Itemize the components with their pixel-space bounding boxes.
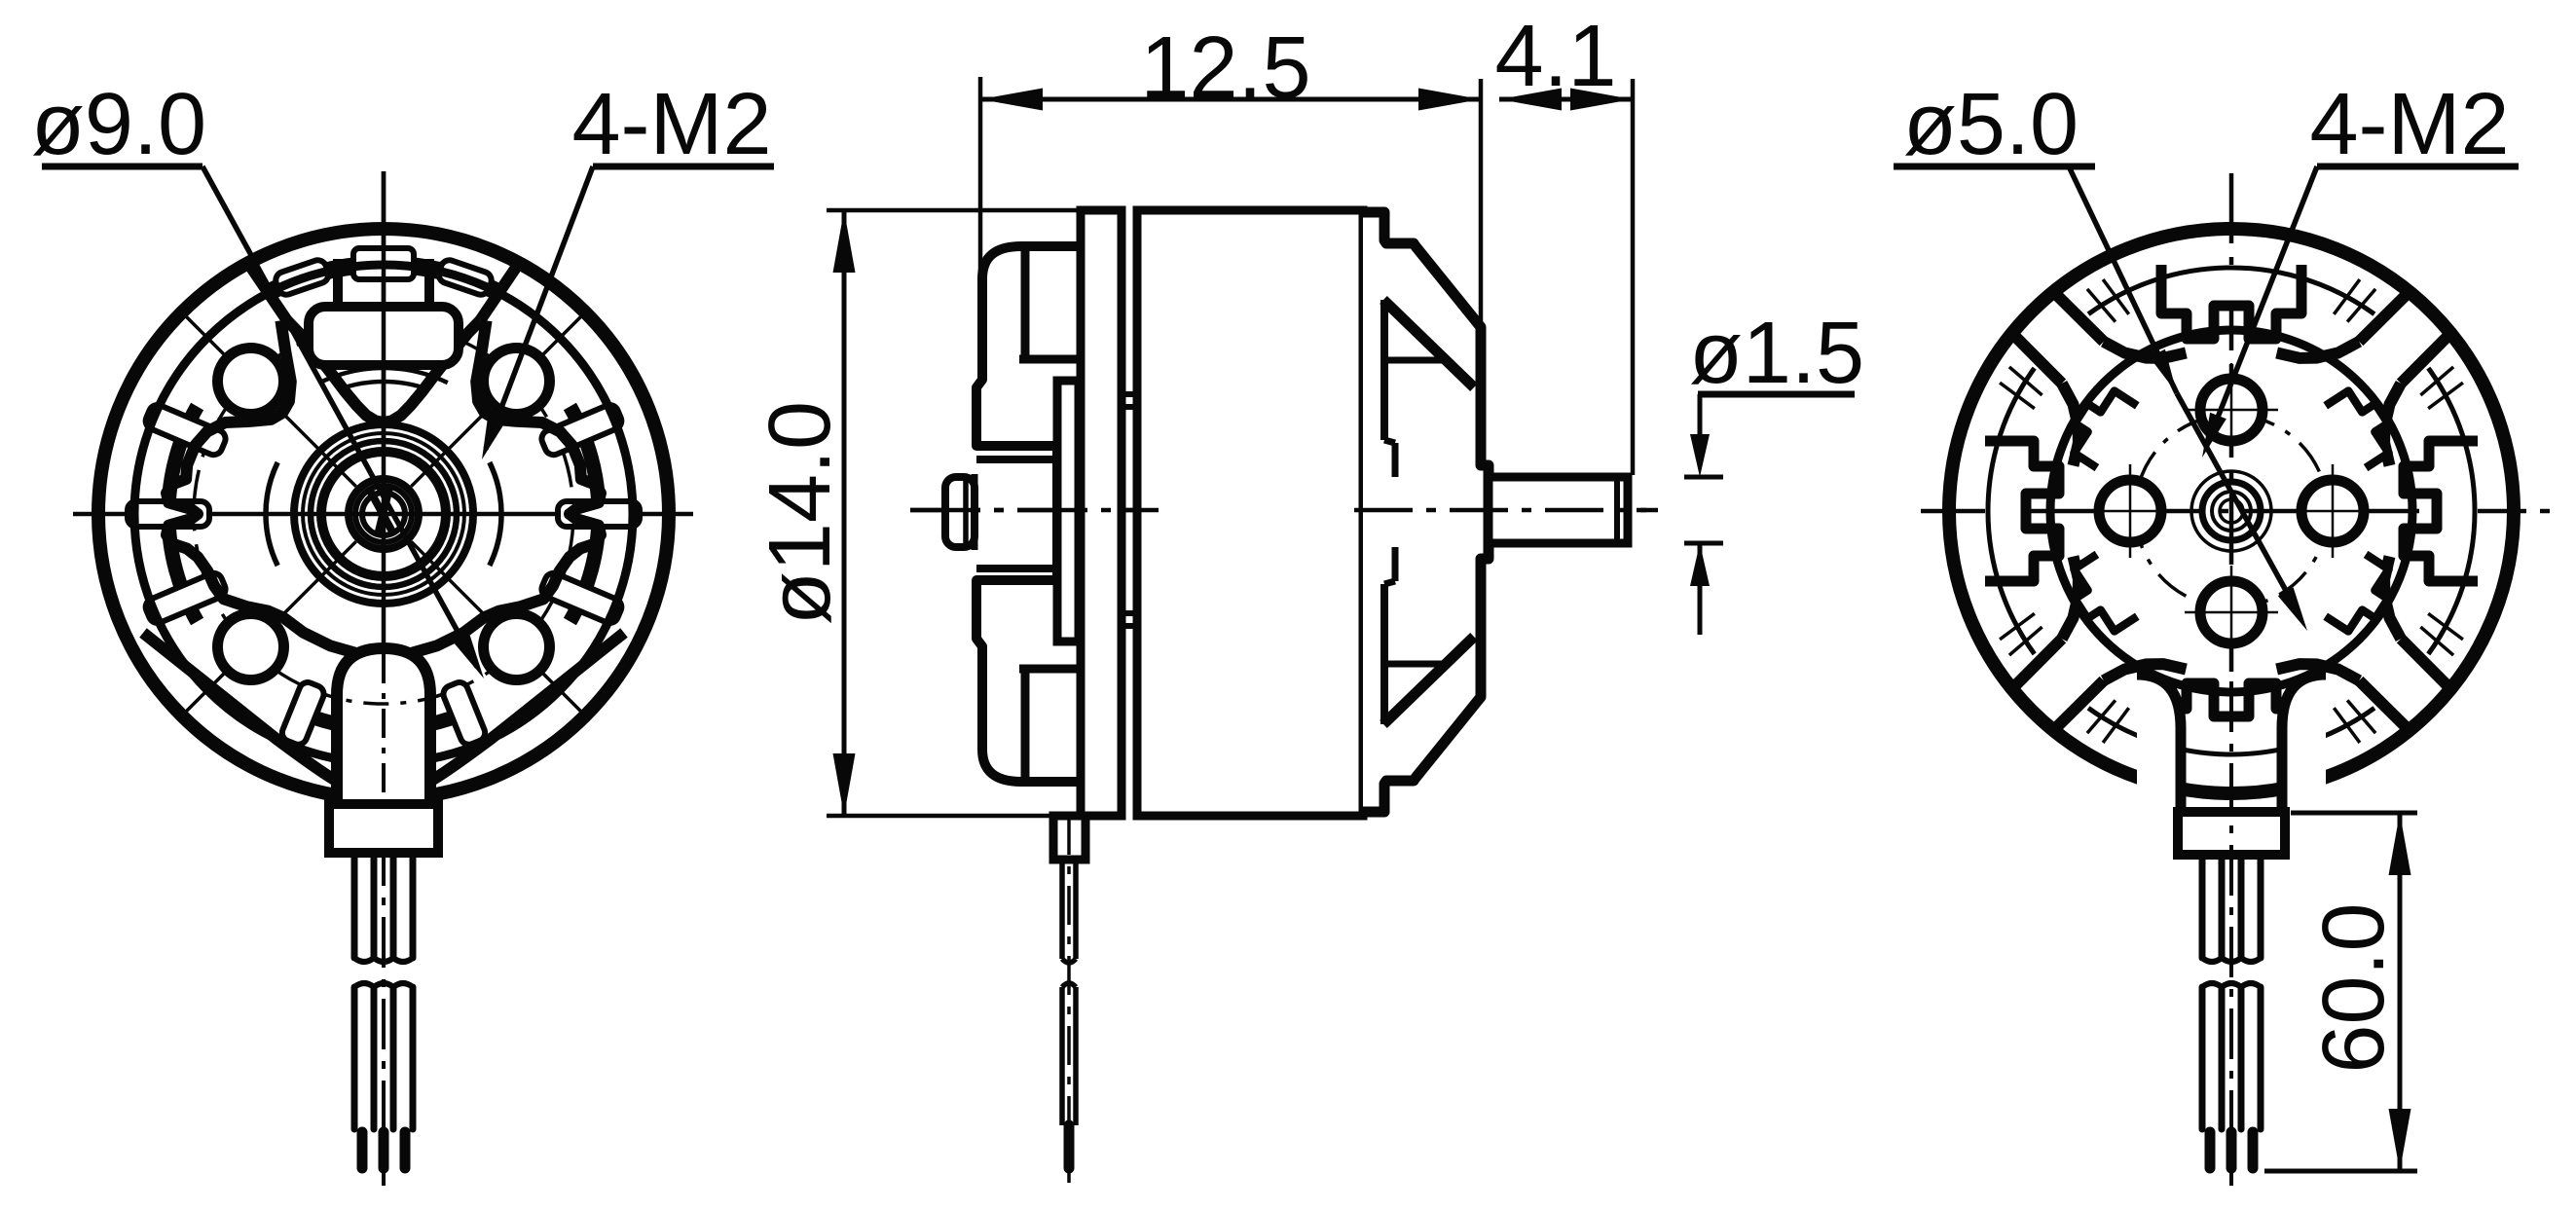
leg outline lower-left <box>143 633 338 782</box>
stator stack rect <box>1057 381 1079 642</box>
inner rim circle <box>134 265 633 763</box>
outer circle <box>98 229 669 799</box>
end cap inner diagonal bottom <box>1383 637 1474 724</box>
crosshair dash-dot <box>1921 509 2555 514</box>
right view vertical dashdot through boot <box>2229 681 2233 1186</box>
mount flange silhouette <box>976 246 1083 782</box>
middle view wire <box>1053 816 1086 860</box>
right arm step tabs <box>2326 383 2402 468</box>
center boss rings <box>2191 471 2271 551</box>
diagonal hole centerlines <box>411 314 583 487</box>
right pocket south <box>2277 664 2360 680</box>
vertical centerline over top pocket <box>382 171 386 448</box>
svg-text:ø9.0: ø9.0 <box>31 76 206 173</box>
svg-text:4-M2: 4-M2 <box>2309 76 2509 173</box>
inner boundary left half with 9oclock prongs <box>166 320 384 656</box>
svg-text:ø1.5: ø1.5 <box>1689 305 1864 402</box>
right pocket west <box>2062 557 2079 640</box>
leg outline lower-right <box>429 633 624 782</box>
rear holes 4x <box>2200 379 2263 441</box>
centerline through boot <box>382 654 386 804</box>
bottom arc band near boot <box>296 711 471 729</box>
bolt circle dashed 5.0 <box>2135 415 2328 607</box>
end cap inner diagonal top <box>1383 300 1474 387</box>
bell can <box>1137 210 1363 816</box>
bolt circle dashed dia 9.0 <box>194 324 573 704</box>
right view: motor rear face <box>1921 173 2555 1186</box>
leader dia 9.0 <box>202 166 477 667</box>
inner boundary right half with 3oclock prongs <box>384 320 601 656</box>
svg-text:12.5: 12.5 <box>1140 19 1310 117</box>
flange arm inner edges <box>1021 246 1030 359</box>
3 wires left view <box>351 857 358 958</box>
leader 4-M2 left <box>486 166 593 449</box>
bell end cap outline <box>1363 212 1489 812</box>
band arcs with slots at 3 and 9 oclock <box>570 407 599 622</box>
wire boot right view <box>2137 675 2326 812</box>
wire boot left view: white dome <box>337 648 430 808</box>
dashed bolt circle over boot <box>325 695 443 705</box>
shaft keyway chords <box>370 491 393 533</box>
svg-text:ø5.0: ø5.0 <box>1903 76 2079 173</box>
backplate <box>1081 210 1122 816</box>
mounting holes 4x M2 <box>484 348 550 415</box>
leader dia 5.0 <box>2069 166 2177 393</box>
shaft <box>1489 477 1628 543</box>
leader 4-M2 right <box>2206 166 2317 447</box>
outer circle right <box>1949 229 2514 793</box>
left view: motor front face <box>73 171 693 1186</box>
right pocket east <box>2384 384 2401 466</box>
right pocket north <box>2104 342 2187 358</box>
hub rings <box>294 424 473 604</box>
rear shaft stub with e-clip <box>945 477 975 547</box>
svg-text:4-M2: 4-M2 <box>571 76 771 173</box>
center axis dash-dot <box>910 508 1658 513</box>
thin arcs near hub at 3 and 9 <box>490 462 501 566</box>
crosshair centerlines <box>73 512 693 517</box>
pocket boundary <box>287 320 480 422</box>
inner disc circle <box>2050 330 2412 692</box>
3 wires right view <box>2199 857 2206 958</box>
bearing boss inner lines <box>976 456 1057 463</box>
center axis redrawn over motor <box>910 508 1159 513</box>
backplate-bell tabs <box>1122 391 1137 397</box>
svg-text:ø14.0: ø14.0 <box>752 401 849 625</box>
svg-text:60.0: 60.0 <box>2305 902 2403 1073</box>
